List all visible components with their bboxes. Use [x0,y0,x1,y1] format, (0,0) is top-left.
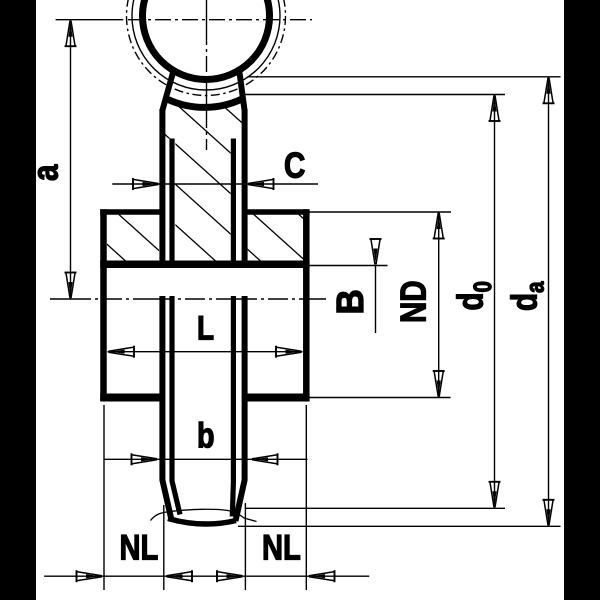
dimension b: left arrow [132,453,158,465]
worm horizontal centerline [56,19,124,21]
dimension NL: arrow 1 [77,570,103,582]
dimension d0: bottom reference line [245,507,505,509]
dimension NL: line [44,575,369,577]
label d0 [456,282,491,309]
left flank [163,73,174,111]
dimension b: line [104,458,308,460]
bore white underlay left [159,139,175,269]
label ND [401,282,426,321]
dimension L: left arrow [109,346,135,358]
dimension ND: bottom reference line [310,397,451,399]
dimension B: reference line [310,265,388,267]
right scan margin bar [564,0,600,600]
throat arc [168,99,243,108]
NL extension line mid right [244,503,246,590]
dimension B: arrow [370,239,382,265]
dimension ND: bottom arrow [433,371,445,397]
label b [199,422,213,448]
dimension ND: vertical line [438,212,440,398]
rim right wall [303,209,310,401]
worm addendum circle (thin) [132,0,280,90]
dimension NL: arrow 3 [217,570,243,582]
worm pitch circle (dash-dot) [127,0,286,96]
worm profile circle (thick) [143,0,270,80]
rim left wall [100,209,107,401]
dimension a: bottom arrow [65,273,77,299]
dimension a: top arrow [65,21,77,47]
dimension L: right arrow [276,346,302,358]
dimension NL: arrow 4 [309,570,335,582]
label a [38,164,58,180]
wheel vertical centerline [206,0,208,150]
label C [285,152,304,177]
dimension B: vertical line [375,266,377,334]
ring seat wall right inner [232,139,233,517]
right flank [240,73,245,111]
dimension d0: top reference line [241,94,505,96]
dimension C: line [112,183,318,185]
wheel axis centerline [50,298,326,300]
dimension d0: top arrow [489,96,501,122]
dimension da: bottom reference line [238,525,561,527]
dimension d0: vertical line [494,95,496,509]
NL extension line far left [103,405,105,590]
dimension C: right arrow [248,178,274,190]
rim mid thick line [100,261,309,269]
section hatching [0,40,590,274]
label NL left [121,535,157,559]
ring seat wall left inner [172,139,180,515]
NL extension line far right [305,405,307,590]
dimension ND: top arrow [433,213,445,239]
label B [337,291,363,312]
ring seat wall right outer [236,109,245,521]
rim bottom line [100,394,309,402]
label L [199,316,213,339]
dimension d0: bottom arrow [489,482,501,508]
bore white underlay right [231,139,248,269]
rim top line [100,209,309,215]
dimension NL: arrow 2 [167,570,193,582]
dimension da: top arrow [543,78,555,104]
dimension ND: top reference line [310,211,452,213]
label da [510,281,543,309]
dimension C: left arrow [133,178,159,190]
hub bottom end arc [168,519,236,525]
dimension a: line [70,20,72,299]
wheel body fill (white) [101,99,310,526]
left scan margin bar [0,0,36,600]
dimension da: bottom arrow [543,500,555,526]
ring seat wall left outer [162,109,171,520]
label NL right [264,535,300,559]
dimension da: vertical line [548,77,550,527]
NL extension line mid left [163,505,165,590]
hub break line [151,509,257,521]
dimension da: top reference line [248,76,561,78]
dimension L: line [108,351,303,353]
dimension b: right arrow [252,453,278,465]
